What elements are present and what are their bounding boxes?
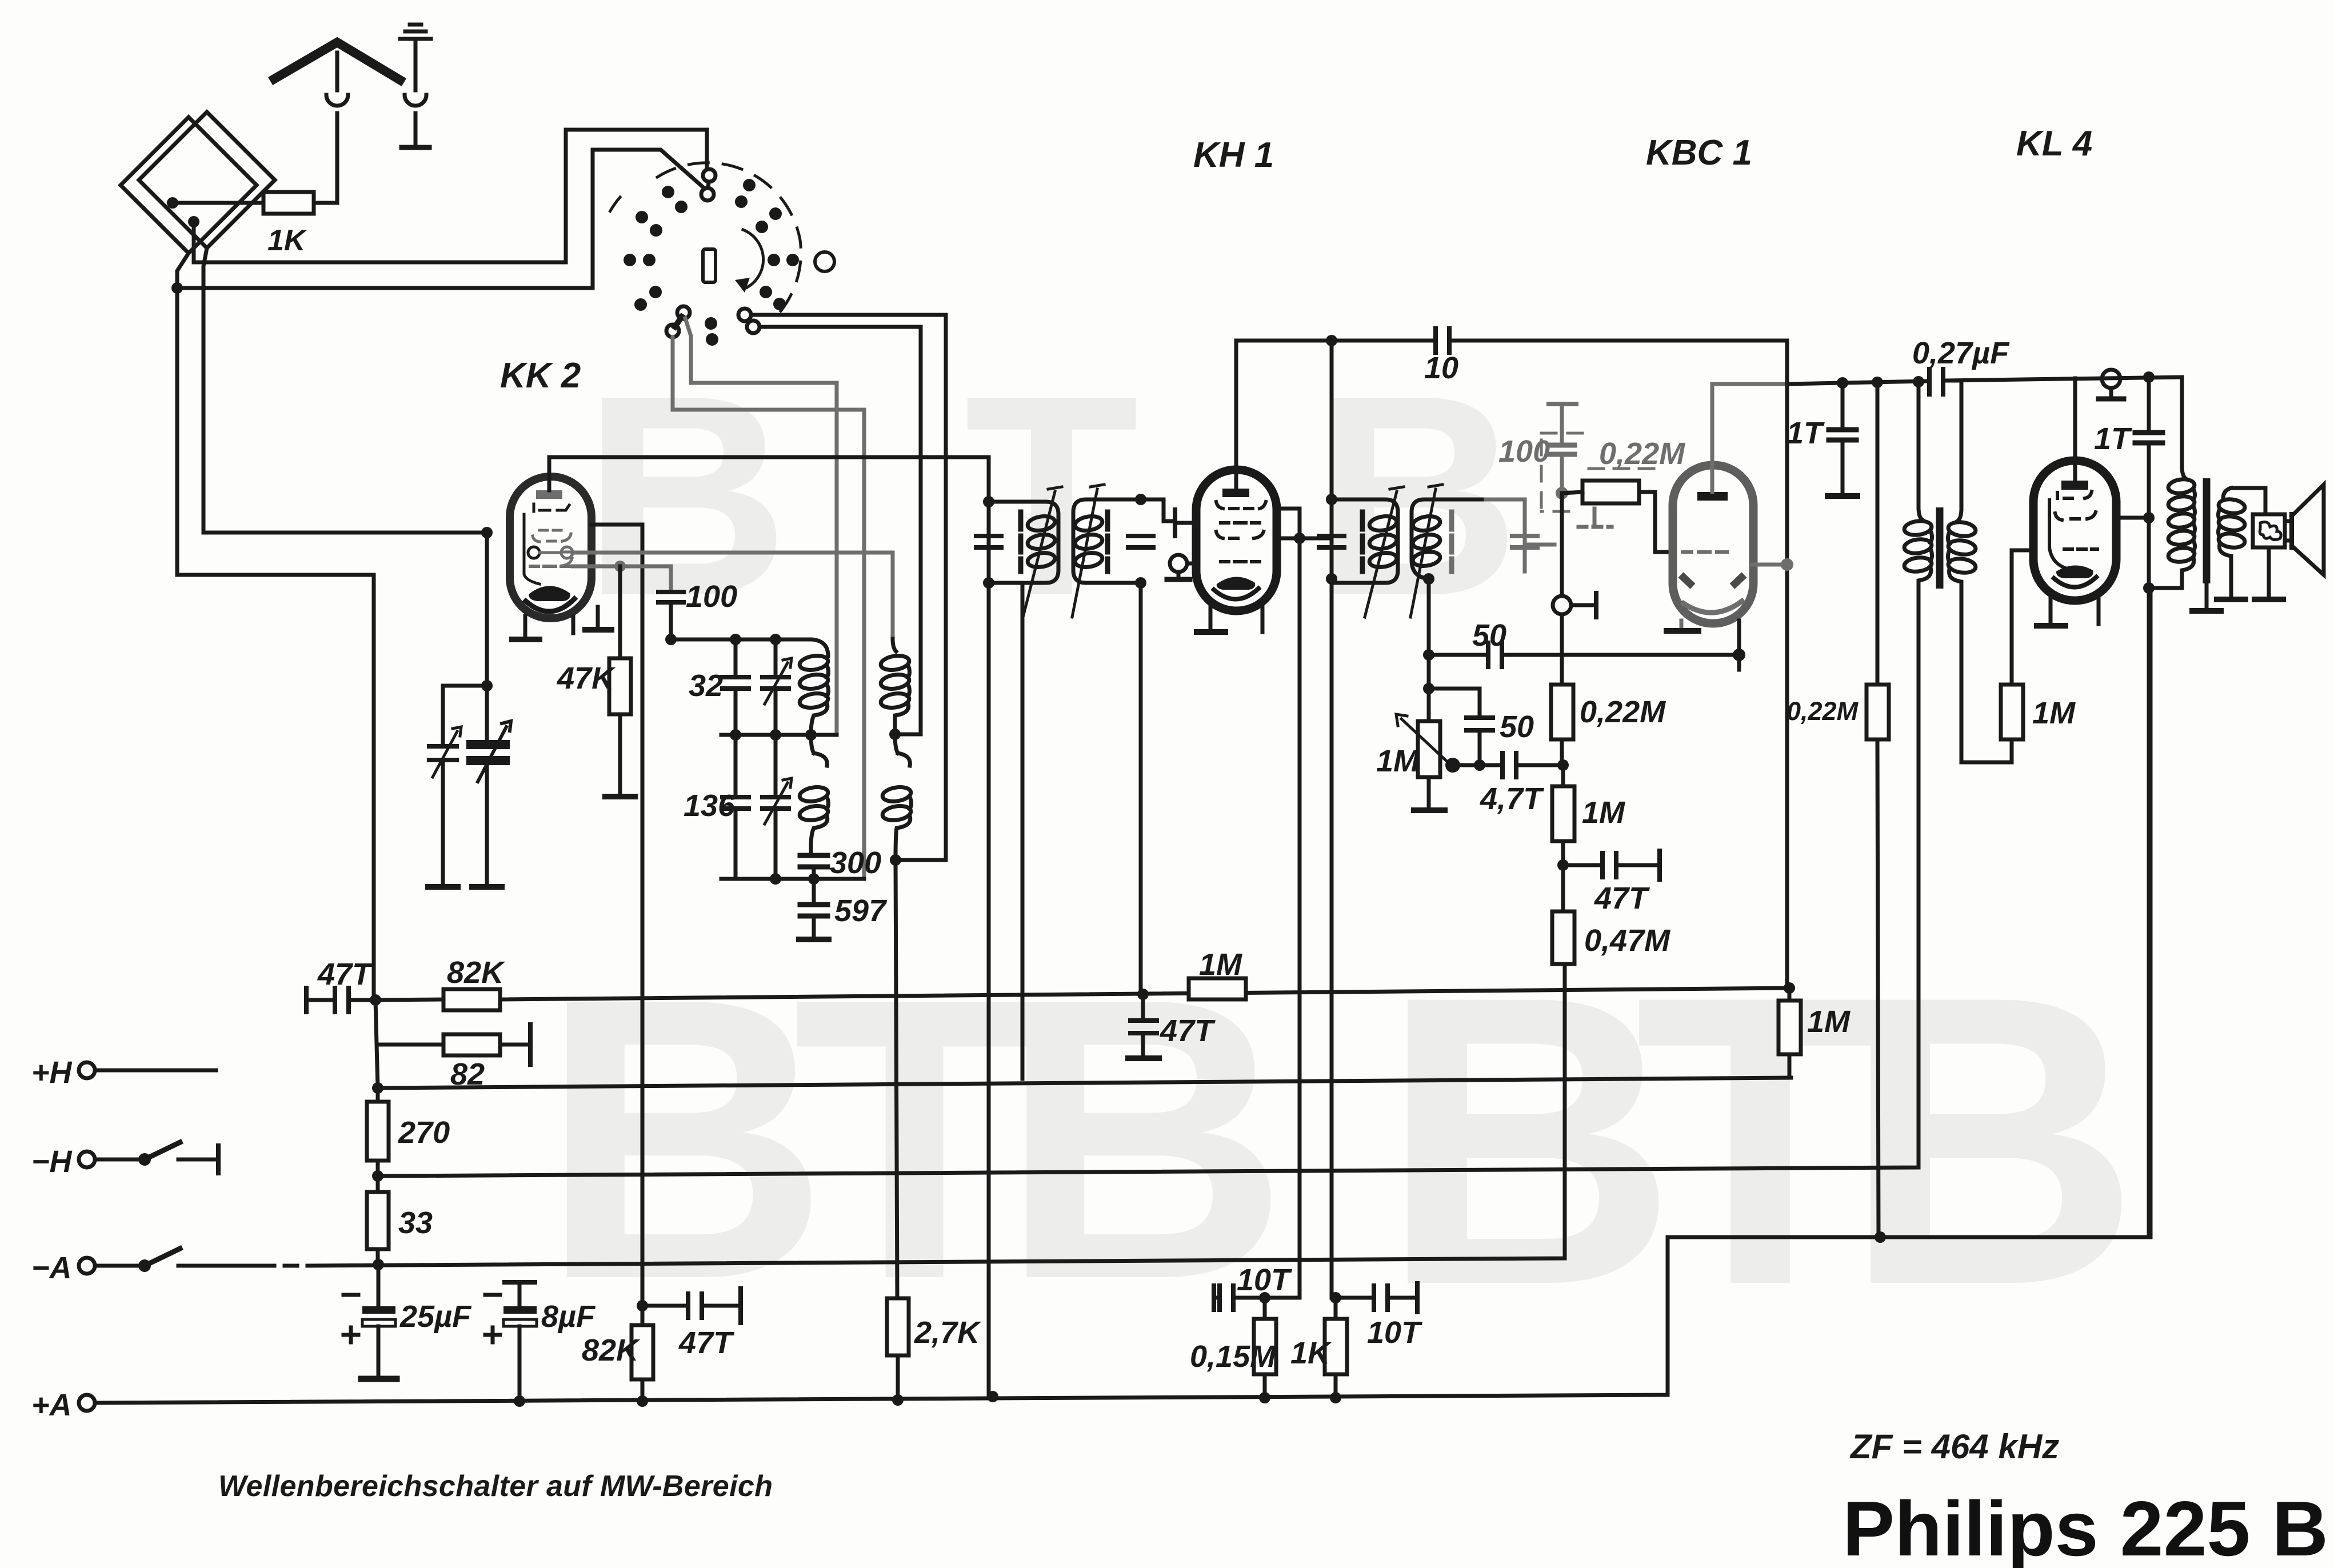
wire KBC1 anode to HT rail (gray) [1752,563,1786,567]
node 1K bottom on +A [1330,1392,1341,1403]
svg-text:1M: 1M [1582,795,1625,830]
capacitor 8uF electrolytic [505,1280,535,1285]
core output transformer [2203,478,2211,583]
svg-text:BTB: BTB [540,915,1289,1362]
svg-text:10T: 10T [1237,1263,1292,1297]
capacitor 47T (KK2 line bypass) [642,1304,686,1308]
node 50 row [1423,649,1434,661]
wire IFT2 left vertical [1330,341,1334,1298]
resistor 1K [263,192,314,214]
tube KBC1 grid dashes [1682,550,1727,554]
capacitor IFT1 secondary [1128,536,1153,547]
core interstage transformer [1936,507,1944,589]
svg-text:KH 1: KH 1 [1193,135,1274,175]
transformer IFT2 secondary box [1412,499,1486,579]
capacitor 10 [1436,329,1449,353]
core IFT2 primary dashes [1360,512,1365,571]
node 0,15M top [1259,1292,1270,1303]
wire antenna rail upper to switch [194,130,707,262]
tube KH1 cathode [1217,577,1256,590]
tube KBC1 leg left with ground [1680,621,1684,629]
node IFT1 primary top [983,496,994,507]
node oscillator tap [889,729,901,740]
wire tank mid bus [721,733,837,737]
pot 1M ground [1427,777,1431,808]
tube KL4 top cap [2061,481,2088,490]
tube KH1 internal electrodes [1216,502,1266,562]
terminal -A [79,1258,95,1274]
capacitor 100 (osc padder) [658,592,684,602]
wire KK2 g1 band switch (y908) [592,525,642,1325]
wire secondary top to speaker [2231,488,2265,514]
node -A junction [373,1259,384,1270]
node IFT2 secondary bottom [1423,573,1434,585]
capacitor 10T (right) [1336,1296,1372,1300]
node IFT1 secondary top [1135,494,1146,505]
loudspeaker cone [2289,514,2294,547]
node mid bus 136 fixed [730,729,741,741]
tube KH1 envelope [1196,470,1277,611]
node grid chain junction [1557,759,1569,771]
capacitor 47T (AVC) [304,988,309,1012]
band switch rotation arrow [743,230,764,289]
node 2.7K bottom on +A [892,1394,904,1406]
wire bus B2 [378,1078,1791,1088]
svg-text:47T: 47T [317,957,373,991]
tube KL4 leg left with ground [2049,599,2053,623]
svg-text:ZF = 464 kHz: ZF = 464 kHz [1849,1427,2059,1466]
capacitor 0,27uF [1929,369,1943,394]
tube KBC1 top cap [1697,492,1728,501]
capacitor 597 [812,879,816,937]
svg-text:136: 136 [684,789,736,823]
wire loop tap1 to 1K [173,201,263,205]
tube KH1 leg right [1261,607,1265,632]
tube KBC1 diode plates [1681,575,1693,586]
wire 1M top to KL4 grid [2012,550,2033,685]
node 82K top tap [637,1300,648,1311]
tube KK2 cathode contacts [528,547,539,558]
coil L4 oscillator lower [881,734,912,860]
resistor 1K [1330,1292,1341,1303]
svg-text:8µF: 8µF [541,1299,596,1334]
node tank top bus [665,634,677,645]
band switch contact right 2 [747,321,760,333]
svg-text:BTB: BTB [1380,910,2140,1370]
node IFT2 primary top [1326,494,1337,505]
wire KK2 screen to 47K and padder [573,566,671,589]
node IFT2 primary bottom [1326,573,1337,585]
node B3 start [376,1161,380,1192]
wire IFT1 secondary bottom to AVC [1139,583,1143,994]
wire IFT1 tap to heater bus [1021,583,1025,1079]
wire wiper B to tank circuit [673,337,864,879]
tube KL4 internal electrodes [2049,491,2097,569]
svg-text:10: 10 [1424,351,1458,385]
node loop tap 2 [188,216,199,227]
tube KL4 leg right [2097,599,2101,624]
svg-text:50: 50 [1472,618,1506,653]
wire loop bottom to ground rail [177,253,374,1000]
svg-text:82K: 82K [582,1333,641,1367]
svg-text:1T: 1T [2094,422,2132,456]
wire diode load down [1560,493,1564,596]
wire antenna rail lower to switch [177,150,705,288]
svg-text:1K: 1K [267,224,307,257]
wire bus A (10pF coupling) [1236,341,1787,988]
svg-text:0,47M: 0,47M [1584,923,1670,958]
node 0,22M rail tap [1872,377,1883,388]
capacitor 47T (audio coupling) [1563,863,1600,867]
resistor 1M (vertical) [1561,765,1565,786]
wire heater chain vertical [375,1000,378,1088]
wire AVC bus B1 [500,988,1789,999]
wire KK2 top cap to IFT1 [549,457,989,502]
node KH1 output [1294,533,1305,544]
node 47K top [614,561,626,572]
terminal -H [79,1151,95,1167]
svg-text:1K: 1K [1290,1336,1332,1370]
capacitor trimmer antenna (left) [429,746,457,760]
svg-text:82K: 82K [447,955,506,990]
capacitor 136 fixed [734,735,738,879]
capacitor IFT1 primary [976,536,1001,547]
svg-text:Wellenbereichschalter auf MW-B: Wellenbereichschalter auf MW-Bereich [218,1470,773,1503]
svg-text:Philips 225 B: Philips 225 B [1843,1485,2328,1568]
svg-text:1M: 1M [1376,744,1420,778]
wire bus B3 [378,589,1919,1176]
svg-text:+H: +H [31,1055,73,1090]
wire -A bus to 0.47M [178,964,1565,1266]
resistor 0,22M (grid leak) [1551,685,1573,739]
resistor 0,47M [1561,865,1565,911]
tube KBC1 cathode (gray) [1684,601,1742,613]
earth terminal top [400,25,431,39]
node 32 trimmer top [770,634,781,645]
band switch rotor slot [703,249,716,282]
svg-text:2,7K: 2,7K [914,1315,982,1350]
band switch wiper contacts bottom [677,306,690,319]
wire band select lower segments (dark) [837,606,864,879]
svg-text:0,22M: 0,22M [1787,697,1859,726]
tube KK2 cathode base shading [529,586,570,601]
svg-text:KBC 1: KBC 1 [1646,133,1752,173]
svg-text:270: 270 [398,1115,450,1150]
coil IFT2 secondary [1412,514,1441,567]
resistor 0,15M [1263,1298,1267,1319]
resistor 82K (bottom, KK2 line) [632,1325,653,1379]
wire tank top bus [671,639,828,656]
tube KL4 envelope [2033,461,2116,601]
resistor 33 [367,1192,389,1249]
wire gang line to tuning caps [443,533,487,743]
node 1T to cathode return [2143,582,2155,594]
node tank mid bus [805,729,817,741]
tube KH1 leg left with ground [1209,607,1213,630]
resistor 2,7K [887,1298,909,1355]
potentiometer 1M [1418,721,1440,777]
node interstage tap [1913,376,1924,387]
svg-text:KK 2: KK 2 [500,356,581,395]
wire B3 rail junction to transformer [2285,521,2292,541]
gray ground dashed [1593,509,1597,525]
node AVC line left [370,994,381,1006]
tuning arrow IFT1 primary [1023,487,1062,617]
svg-text:0,27µF: 0,27µF [1912,336,2010,370]
capacitor 25uF electrolytic [377,1266,381,1306]
wire tank bottom bus [721,877,864,881]
node 82K bottom on +A [637,1395,648,1407]
node KL4 rail [2143,371,2155,383]
tube KK2 envelope [510,477,592,618]
transformer IFT1 secondary box [1073,499,1140,583]
node 32 fixed top [730,634,741,645]
wire output transformer primary bottom [2149,578,2182,588]
tube KK2 dashed grid row 4 [530,565,571,568]
svg-text:597: 597 [834,894,888,928]
svg-text:25µF: 25µF [399,1299,472,1334]
grid cap connector KBC1 [1553,596,1571,614]
node +A rail step [1875,1231,1886,1243]
tube KH1 top cap [1222,489,1249,497]
coil output transformer primary [2168,467,2196,578]
tube KK2 leg right with ground [596,607,600,626]
wire IFT2 secondary to detector (gray) [1525,543,1554,547]
svg-text:50: 50 [1500,710,1534,744]
svg-text:KL 4: KL 4 [2016,124,2092,163]
node diode load top [1556,487,1568,499]
tuning arrow IFT2 secondary [1410,485,1442,617]
tube KK2 leg left with ground [523,616,527,637]
band switch spare hole [815,252,834,271]
capacitor 300 [811,847,814,879]
tube KBC1 leg right [1737,621,1741,655]
coil L1 (antenna tank upper) [798,654,829,735]
tube KL4 cathode [2056,565,2093,578]
grid cap connector KH1 [1173,510,1177,536]
svg-text:33: 33 [398,1206,433,1240]
wire contact R2 to oscillator coil tap [760,327,921,734]
node B1 right end [1784,982,1795,994]
tube KK2 leg middle [571,617,575,633]
loop antenna (frame aerial) [121,117,257,253]
node 47T junction [1557,859,1569,871]
wire +H stub [95,1069,216,1073]
resistor 0,22M (output grid feed) [1867,685,1889,739]
capacitor 50 (upper) [1429,653,1486,657]
resistor 1M (KL4 grid leak) [2010,739,2014,762]
wire wiper row [1453,763,1500,767]
capacitor IFT2 primary [1319,536,1344,547]
node loop tap 1 [167,197,178,209]
loudspeaker driver [2253,514,2285,547]
node IFT1 primary bottom [983,577,994,589]
tube KK2 internal electrodes [524,504,575,584]
node KL4 grid on 1T line [2143,512,2155,523]
node 1T tap [1837,377,1848,389]
node bottom bus trimmer [770,873,781,885]
svg-text:47T: 47T [678,1326,734,1360]
band switch dashed wafer arc [657,163,801,320]
svg-text:1T: 1T [1787,416,1825,450]
transformer interstage primary feed [1917,382,1921,507]
tuning arrow IFT2 primary [1365,487,1404,617]
svg-text:0,15M: 0,15M [1190,1339,1276,1374]
wire IFT1 left vertical to +A [987,502,991,1397]
svg-text:47K: 47K [557,661,616,695]
wire +A bus [95,590,2151,1403]
wire 0,22M rail vertical [1877,382,1879,1237]
ground output transformer core [2205,583,2209,608]
node IFT1 return on +A [987,1391,998,1402]
tube KK2 top cap [536,490,562,499]
switch -A [95,1264,143,1268]
resistor 1M (AVC decoupling right) [1788,988,1792,1001]
terminal +H [79,1062,95,1078]
core IFT2 secondary dashes (gray) [1449,512,1454,571]
node AVC 47T tap [1137,989,1149,1000]
coil interstage secondary [1948,509,1977,590]
coil IFT1 primary [1026,514,1056,569]
node B2 start [372,1082,383,1094]
node 8uF on +A [514,1395,525,1407]
tube KBC1 envelope (gray) [1673,465,1753,623]
terminal +A [79,1395,95,1411]
capacitor 1T (tone) [2147,377,2151,430]
node wiper 50 junction [1474,759,1485,771]
svg-text:47T: 47T [1594,881,1650,915]
coil interstage primary [1904,507,1933,589]
ground output secondary [2217,597,2245,602]
svg-text:32: 32 [689,669,723,703]
band switch contact dots [624,179,799,346]
resistor 0,22M (diode load horizontal) [1582,481,1639,503]
coil L3 oscillator upper [880,639,910,734]
svg-text:0,22M: 0,22M [1599,437,1685,471]
svg-text:−A: −A [31,1251,72,1285]
core IFT1 secondary dashes [1105,512,1110,571]
resistor 270 [376,1088,380,1102]
wire KK2 osc grid to coil (gray) [573,553,893,639]
node anode on vertical (gray) [1781,558,1793,571]
row 10T / 0,15M [1212,1286,1216,1310]
tuning arrow IFT1 secondary [1072,485,1104,617]
band switch contact right 1 [738,309,751,321]
wire 0,27uF to transformer secondary [1945,381,1961,509]
antenna symbol [274,42,400,80]
svg-text:100: 100 [686,579,737,614]
node 0,15M bottom on +A [1259,1392,1270,1403]
capacitor 32 fixed [734,639,738,735]
svg-text:47T: 47T [1160,1014,1216,1048]
node bus A IFT2 [1326,335,1337,346]
svg-text:4,7T: 4,7T [1480,782,1544,816]
band switch contact A (top, with wire) [703,169,716,182]
capacitor 136 trimmer [774,735,778,879]
wire pot top branch [1429,689,1480,715]
capacitor 4,7T [1502,753,1516,777]
wire secondary bottom to 1M return [1961,590,2012,762]
capacitor tuning main (right, thick) [471,745,505,761]
node IFT1 secondary bottom [1135,577,1146,589]
node oscillator coil bottom [890,854,901,866]
svg-text:+A: +A [31,1388,72,1422]
capacitor 1T (KBC1 anode bypass) [1841,383,1845,427]
wire KH1 screen out to IFT2 [1274,537,1332,541]
wire wiper A to oscillator (band select) [685,318,837,735]
capacitor 50 (lower) [1466,718,1493,730]
wire contact R1 to oscillator coil bottom [751,315,946,860]
wire bus B (output coupling rail) [1787,377,2182,467]
wire osc bottom down to 2.7K [896,860,897,1298]
svg-text:1M: 1M [2032,696,2076,730]
coil L2 (antenna tank lower) [798,735,829,847]
node KBC1 cathode to 50 row [1733,649,1745,661]
resistor 82 [377,1043,443,1047]
wire IFT1 secondary to grid cap [1141,499,1164,521]
wire KH1 anode vertical to 10T row [1298,538,1302,1298]
svg-text:300: 300 [830,846,881,880]
node ground rail tap [171,282,183,294]
transformer IFT1 primary box [989,502,1058,583]
wire IFT2 secondary bottom down [1427,579,1431,722]
wire loop inner bottom to KK2 grid [203,248,487,533]
transformer IFT2 primary box [1332,499,1398,583]
node mid bus 136 trimmer [770,729,781,741]
svg-text:10T: 10T [1367,1315,1422,1350]
node pot top [1423,683,1434,694]
wire KH1 anode out [1276,509,1300,538]
svg-text:0,22M: 0,22M [1580,695,1666,729]
resistor 47K [618,566,622,658]
grid cap connector KL4 (with ground) [2102,370,2120,388]
svg-text:−H: −H [31,1145,73,1179]
switch -H [95,1158,143,1162]
node gang junction [481,527,493,538]
gray cap IFT2 secondary [1512,536,1537,547]
resistor 82K (AVC) [375,999,443,1000]
tube KL4 grid lead right [2115,516,2149,520]
capacitor 47T to ground (AVC) [1141,994,1145,1018]
metallising contact KH1 [1170,555,1187,572]
svg-text:1M: 1M [1807,1005,1851,1039]
coil output transformer secondary [2218,488,2246,597]
core IFT1 primary dashes [1018,512,1024,571]
node tank bottom bus [808,873,820,885]
capacitor 32 trimmer [774,639,778,735]
coil IFT2 primary [1368,514,1397,569]
coil IFT1 secondary [1074,514,1103,569]
